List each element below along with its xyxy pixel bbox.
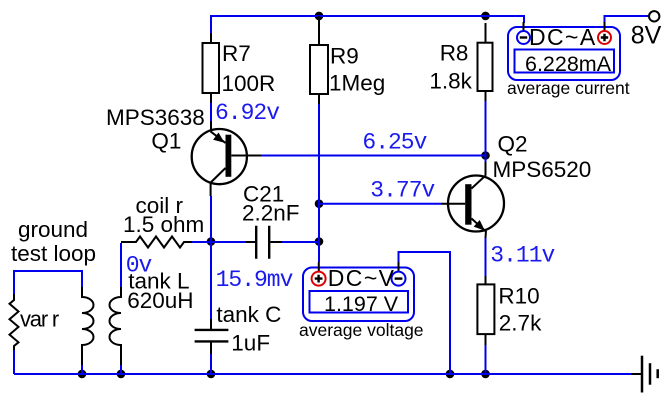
svg-text:average voltage: average voltage	[299, 320, 424, 340]
svg-text:1.8k: 1.8k	[429, 69, 472, 94]
resistor var r	[10, 294, 59, 350]
wire C21 to R9 net	[282, 241, 319, 243]
Q1 base bar	[226, 135, 232, 177]
resistor R10	[477, 276, 542, 345]
terminal 8V	[631, 11, 662, 49]
node tank node junction	[207, 237, 216, 246]
svg-text:2.2nF: 2.2nF	[242, 200, 300, 225]
wire test loop coil bottom	[81, 365, 83, 374]
wire tank C bottom	[210, 354, 212, 374]
voltmeter readout 1.197 V	[310, 291, 409, 313]
voltmeter minus terminal lead	[398, 262, 400, 272]
wire Q1 collector down to tank node	[210, 196, 212, 242]
wire tank L top	[120, 243, 122, 287]
wire var r bottom	[13, 350, 15, 374]
wire Q2 emitter to R10	[485, 238, 487, 276]
node top rail / R8 junction	[481, 12, 490, 21]
svg-text:Q1: Q1	[151, 129, 181, 154]
svg-text:1.5 ohm: 1.5 ohm	[123, 212, 204, 237]
terminal circle	[649, 11, 659, 21]
wire test loop top	[14, 271, 82, 294]
svg-text:620uH: 620uH	[127, 288, 193, 313]
svg-text:6.92v: 6.92v	[215, 100, 280, 126]
wire R7 to Q1 emitter	[210, 103, 212, 121]
inductor test loop coil	[82, 287, 94, 365]
svg-text:100R: 100R	[222, 71, 276, 96]
svg-text:3.11v: 3.11v	[490, 243, 555, 269]
meter DC~A average current	[507, 22, 630, 98]
svg-text:ground: ground	[18, 217, 88, 242]
meter DC~V average voltage	[299, 262, 424, 340]
Q2 base bar	[465, 184, 471, 225]
node Q1 base / Q2 collector junction	[481, 151, 490, 160]
svg-text:R7: R7	[222, 41, 251, 66]
svg-text:3.77v: 3.77v	[370, 177, 435, 203]
resistor R8	[429, 23, 492, 101]
ammeter plus terminal	[598, 31, 611, 44]
wire Q2 base	[319, 203, 441, 205]
wire R10 bottom	[485, 345, 487, 374]
svg-text:R10: R10	[498, 284, 539, 309]
svg-text:DC~A: DC~A	[529, 24, 597, 50]
svg-text:6.228mA: 6.228mA	[525, 52, 612, 76]
node bottom wire / tank C junction	[207, 370, 216, 379]
node bottom wire / meter V minus junction	[446, 370, 455, 379]
wire tank L bottom	[120, 365, 122, 374]
wire 8V feed	[605, 16, 650, 22]
capacitor C21	[242, 182, 300, 259]
svg-text:R8: R8	[440, 41, 469, 66]
svg-text:MPS6520: MPS6520	[493, 157, 592, 182]
resistor R9	[310, 16, 385, 104]
wire tank node to C21	[211, 241, 246, 243]
svg-text:R9: R9	[330, 44, 359, 69]
svg-text:average current: average current	[507, 78, 630, 98]
label ground test loop	[11, 217, 96, 266]
capacitor tank C	[195, 302, 282, 356]
Q1 collector lead	[211, 168, 226, 196]
Q2 collector lead	[485, 162, 487, 175]
node C21 right junction	[315, 237, 324, 246]
Q2 emitter with arrow	[472, 219, 486, 239]
Q1 emitter with arrow	[211, 131, 226, 143]
node bottom wire / R10 junction	[481, 370, 490, 379]
svg-text:Q2: Q2	[498, 131, 528, 156]
voltmeter plus terminal	[312, 272, 326, 286]
node top rail / R9 junction	[315, 12, 324, 21]
wire meter V minus to bottom rail	[399, 252, 451, 374]
resistor coil r	[121, 193, 204, 248]
svg-text:8V: 8V	[631, 22, 662, 50]
svg-text:tank C: tank C	[216, 302, 281, 327]
transistor Q2	[441, 131, 591, 238]
svg-text:0v: 0v	[126, 252, 153, 278]
svg-text:1Meg: 1Meg	[329, 71, 385, 96]
wire top supply rail	[211, 16, 524, 33]
ammeter minus terminal lead	[523, 22, 525, 31]
svg-text:DC~V: DC~V	[328, 265, 396, 291]
ammeter plus terminal lead	[604, 22, 606, 31]
wire tank C top	[210, 242, 212, 319]
ground	[631, 356, 658, 393]
ammeter minus terminal	[517, 31, 530, 44]
node bottom wire / tank L junction	[117, 370, 126, 379]
Q1 base lead	[231, 155, 261, 157]
svg-text:6.25v: 6.25v	[362, 129, 427, 155]
inductor tank L	[110, 269, 194, 365]
transistor Q1	[106, 105, 261, 196]
svg-text:MPS3638: MPS3638	[106, 105, 205, 130]
svg-text:15.9mv: 15.9mv	[216, 267, 294, 293]
wire R8 to Q2 collector	[485, 101, 487, 162]
svg-text:test loop: test loop	[11, 241, 96, 266]
voltmeter minus terminal	[392, 272, 406, 286]
voltmeter plus terminal lead	[318, 262, 320, 272]
svg-text:1uF: 1uF	[231, 331, 270, 356]
svg-text:1.197 V: 1.197 V	[324, 292, 399, 316]
Q1 emitter lead	[210, 121, 212, 131]
ammeter readout 6.228mA	[515, 50, 615, 73]
wire Q1 base to Q2 collector	[261, 155, 486, 157]
wire R9 bottom vertical net	[318, 104, 320, 262]
svg-text:var r: var r	[20, 307, 59, 332]
wire coil r to tank node	[192, 241, 211, 243]
resistor R7	[203, 33, 276, 103]
svg-text:2.7k: 2.7k	[499, 311, 542, 336]
Q2 base lead	[441, 203, 465, 205]
wire bottom ground rail	[14, 373, 631, 375]
node bottom wire / test loop coil junction	[78, 370, 87, 379]
node Q2 base tap junction	[315, 199, 324, 208]
